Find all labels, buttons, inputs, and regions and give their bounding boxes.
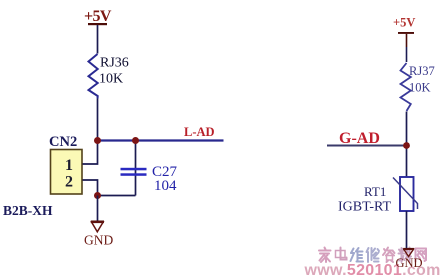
svg-text:+5V: +5V: [84, 8, 112, 25]
svg-text:CN2: CN2: [49, 134, 77, 150]
svg-text:L-AD: L-AD: [184, 125, 215, 139]
svg-text:GND: GND: [84, 233, 113, 248]
svg-text:10K: 10K: [409, 81, 431, 95]
svg-text:104: 104: [154, 178, 177, 194]
svg-text:1: 1: [65, 157, 73, 174]
svg-text:+5V: +5V: [393, 16, 415, 30]
svg-text:B2B-XH: B2B-XH: [3, 203, 53, 218]
svg-text:G-AD: G-AD: [339, 130, 380, 147]
svg-text:RJ37: RJ37: [409, 64, 435, 78]
svg-text:10K: 10K: [99, 72, 123, 87]
svg-text:RJ36: RJ36: [100, 56, 129, 71]
svg-text:IGBT-RT: IGBT-RT: [338, 200, 392, 215]
svg-text:GND: GND: [396, 256, 423, 270]
svg-text:2: 2: [65, 174, 73, 191]
svg-text:RT1: RT1: [364, 184, 386, 199]
